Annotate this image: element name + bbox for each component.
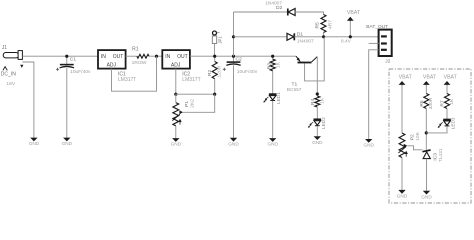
ground GND (LED2) — [314, 136, 321, 140]
junction R2 bottom node — [213, 93, 216, 96]
junction R2 top on rail — [213, 55, 216, 58]
junction R6/LED3 node — [425, 131, 428, 134]
regulator IC2 LM317T — [162, 50, 190, 69]
wire LED2 to GND — [316, 126, 318, 136]
svg-text:GND: GND — [312, 140, 323, 145]
resistor R5 4R7 — [321, 15, 326, 33]
svg-text:BC557: BC557 — [287, 87, 302, 93]
wire D1 cathode to J2 — [294, 36, 378, 38]
junction R1/IC2/ADJ1 node — [155, 55, 158, 58]
wire P1 wiper to R2 bottom node — [183, 94, 215, 112]
diode D1 1N4007 — [287, 33, 294, 40]
svg-text:J1: J1 — [2, 45, 8, 51]
shunt regulator IC3 TL431 — [422, 150, 430, 152]
capacitor C2 10uF/40v — [233, 56, 235, 62]
svg-text:330R: 330R — [428, 97, 434, 109]
svg-text:R2: R2 — [207, 69, 213, 76]
junction collector/R4 node — [316, 92, 319, 95]
wire top rail to D2 — [234, 11, 288, 13]
svg-text:C2: C2 — [236, 57, 243, 63]
svg-text:ADJ: ADJ — [171, 63, 181, 69]
LED LED2 — [314, 118, 322, 120]
svg-text:10uF/40v: 10uF/40v — [237, 69, 258, 75]
svg-text:ADJ: ADJ — [107, 63, 117, 69]
junction C2 top — [232, 55, 235, 58]
resistor R1 1R/2W — [137, 54, 149, 58]
svg-text:GND: GND — [397, 194, 408, 199]
junction R3 top — [271, 55, 274, 58]
svg-text:TL431: TL431 — [438, 148, 444, 162]
junction R5/D1/T1-base node — [322, 35, 325, 38]
wire J2 pin2 stub — [369, 42, 379, 44]
svg-text:T1: T1 — [292, 82, 298, 88]
connector J1 (DC power jack) — [3, 51, 24, 71]
svg-text:DC_IN: DC_IN — [1, 71, 16, 77]
battery level indicator enclosure (dashed) — [389, 69, 471, 203]
svg-text:P2: P2 — [410, 134, 416, 140]
svg-text:10uF/40v: 10uF/40v — [70, 69, 91, 75]
resistor R6 330R — [424, 94, 429, 109]
svg-text:R1: R1 — [132, 46, 139, 52]
ground GND (C2) — [230, 138, 237, 142]
svg-text:GND: GND — [363, 143, 374, 148]
supply VBAT (P2 branch) — [399, 81, 406, 85]
svg-text:LM317T: LM317T — [182, 77, 200, 83]
wire P2 to GND — [401, 158, 403, 190]
svg-text:R6: R6 — [419, 100, 425, 107]
LED LED3 — [443, 119, 451, 121]
svg-text:GND: GND — [267, 142, 278, 147]
wire IC1 OUT to R1 — [126, 55, 137, 57]
wire J1 tip to IC1 IN — [22, 55, 98, 57]
resistor R2 120R — [214, 56, 216, 61]
svg-text:8.4V: 8.4V — [341, 38, 352, 44]
ground GND (LED1) — [269, 138, 276, 142]
wire J1 sleeve to GND — [22, 62, 34, 138]
svg-text:18V: 18V — [6, 81, 15, 87]
wire IC3 anode to GND — [426, 159, 428, 191]
LED LED1 — [269, 93, 277, 95]
svg-text:GND: GND — [228, 141, 239, 146]
junction VBAT node — [349, 35, 352, 38]
svg-text:C1: C1 — [70, 57, 77, 63]
svg-text:R5: R5 — [315, 22, 321, 29]
trimmer P1 2K2 — [173, 103, 179, 126]
wire P2 wiper to IC3 REF — [407, 146, 422, 150]
svg-text:4R7: 4R7 — [328, 20, 334, 29]
resistor R7 1K — [445, 94, 450, 109]
wire IC2 ADJ drop — [175, 69, 177, 95]
svg-text:LED2: LED2 — [321, 117, 326, 129]
svg-text:IC3: IC3 — [433, 153, 439, 161]
resistor R3 1K — [272, 56, 274, 59]
svg-text:IN: IN — [101, 54, 106, 60]
svg-text:R4: R4 — [310, 98, 316, 105]
svg-text:D2: D2 — [276, 5, 283, 11]
svg-text:2K2: 2K2 — [190, 99, 196, 108]
ground GND (J2) — [365, 139, 372, 143]
svg-text:OUT: OUT — [113, 54, 124, 60]
wire C1 to GND — [66, 68, 68, 138]
svg-text:R7: R7 — [440, 100, 446, 107]
diode D2 1N4007 — [288, 9, 295, 16]
ground GND (C1) — [63, 138, 70, 142]
svg-text:OUT: OUT — [177, 54, 188, 60]
wire R1 to IC2 IN — [149, 55, 162, 57]
ground GND (P1) — [172, 138, 179, 142]
svg-text:1K: 1K — [449, 98, 455, 105]
ground GND (IC3) — [423, 191, 430, 195]
supply VBAT (R7 branch) — [444, 81, 451, 85]
svg-text:1K: 1K — [320, 97, 326, 104]
wire T1 collector to R4 — [316, 57, 318, 94]
supply VBAT (R6 branch) — [423, 81, 430, 85]
svg-text:GND: GND — [171, 142, 182, 147]
wire IC1 ADJ feedback loop — [112, 56, 157, 91]
svg-text:JP1: JP1 — [217, 36, 222, 44]
pin header JP1 — [213, 31, 217, 35]
svg-text:10K: 10K — [415, 131, 421, 140]
junction ADJ2/P1 node — [174, 93, 177, 96]
regulator IC1 LM317T — [98, 50, 126, 69]
wire ADJ node to R2 bottom — [176, 93, 215, 95]
svg-text:1R/2W: 1R/2W — [132, 60, 147, 66]
svg-text:VBAT: VBAT — [347, 10, 361, 16]
trimmer P2 10K — [399, 133, 405, 158]
svg-text:GND: GND — [29, 141, 40, 146]
svg-text:R3: R3 — [267, 63, 273, 70]
wire LED1 to GND — [272, 101, 274, 138]
junction C1 top — [65, 55, 68, 58]
wire D2 cathode to R5 — [294, 12, 323, 15]
connector J2 — [379, 30, 392, 56]
ground GND (J1) — [30, 138, 37, 142]
wire LED3 to node — [426, 126, 447, 133]
resistor R4 1K — [315, 96, 320, 107]
wire C2 to GND — [233, 65, 235, 138]
capacitor C1 10uF/40v — [66, 56, 68, 64]
svg-text:GND: GND — [62, 141, 73, 146]
svg-text:GND: GND — [421, 194, 432, 199]
transistor T1 BC557 — [298, 62, 312, 64]
svg-text:J2: J2 — [385, 58, 390, 64]
wire riser to diode rails — [233, 12, 235, 56]
svg-text:LED3: LED3 — [451, 117, 456, 129]
svg-text:IN: IN — [165, 54, 170, 60]
wire J2 pin3 to GND — [369, 50, 379, 139]
ground GND (P2) — [398, 190, 405, 194]
svg-text:1N4007: 1N4007 — [297, 38, 314, 44]
wire D1 rail — [234, 36, 288, 38]
wire IC2 OUT rail — [190, 55, 296, 57]
svg-text:VBAT: VBAT — [399, 74, 413, 80]
svg-text:LM317T: LM317T — [118, 77, 136, 83]
svg-text:VBAT: VBAT — [423, 74, 437, 80]
svg-text:VBAT: VBAT — [444, 74, 458, 80]
svg-text:LED1: LED1 — [276, 92, 281, 104]
wire P1 to GND — [175, 126, 177, 138]
svg-text:120R: 120R — [217, 65, 223, 77]
junction D1 branch — [232, 35, 235, 38]
svg-text:1K: 1K — [275, 61, 281, 68]
supply VBAT output — [347, 17, 354, 21]
wire T1 base to battery rail — [305, 37, 325, 81]
svg-text:P1: P1 — [184, 101, 190, 107]
